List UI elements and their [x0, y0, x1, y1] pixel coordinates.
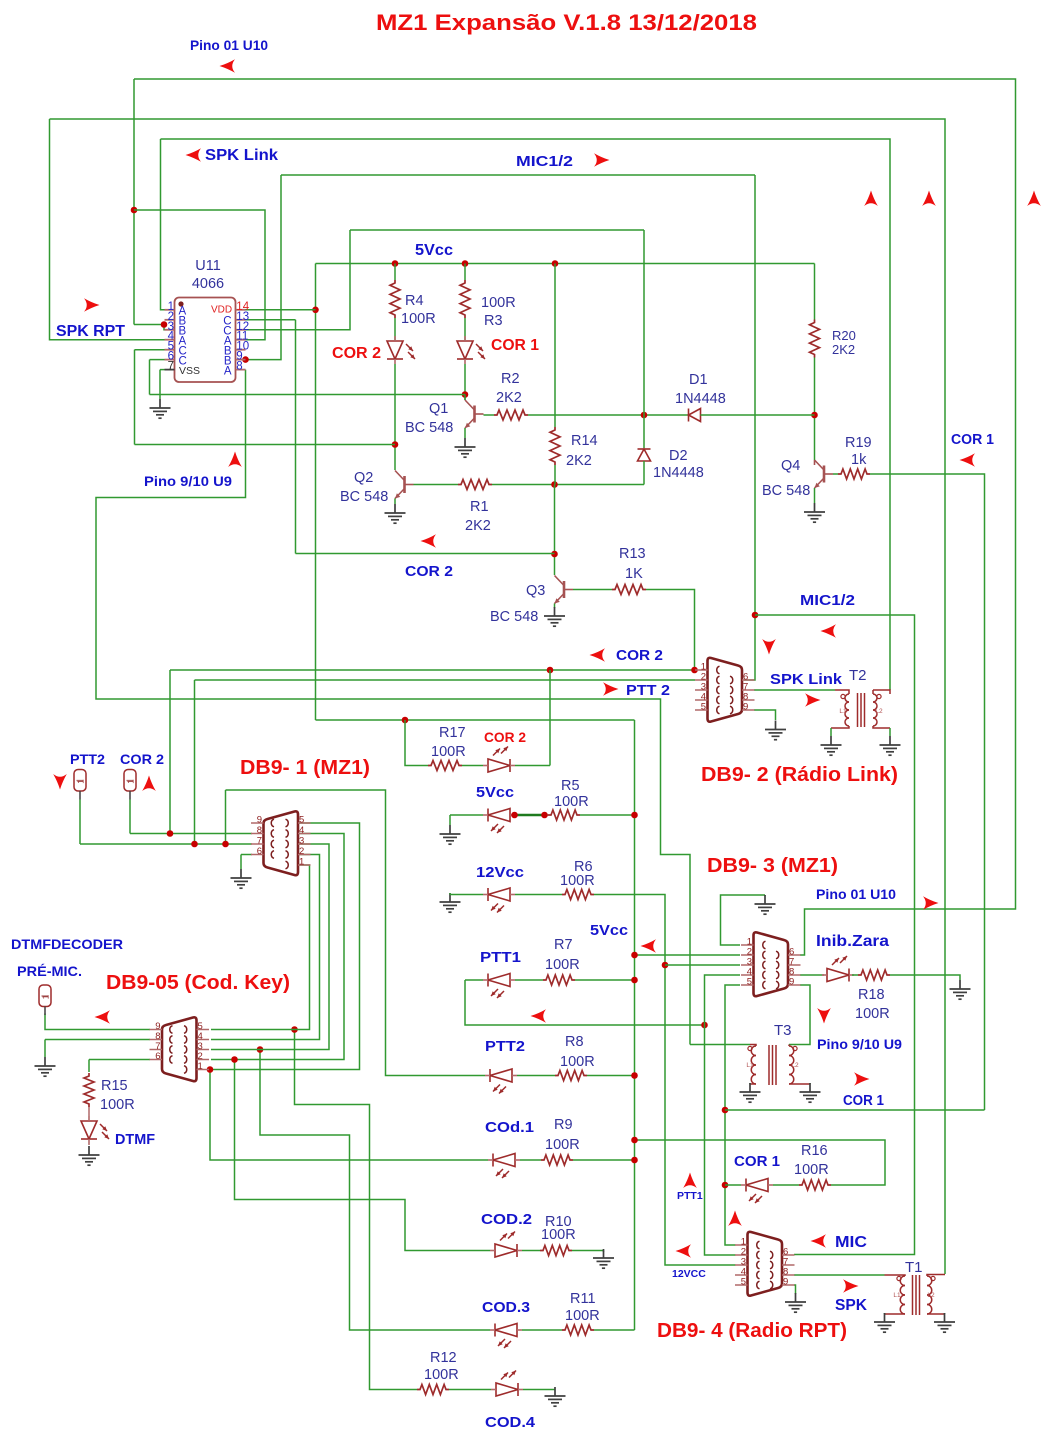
diode D1 [689, 409, 701, 422]
ground Q4 [804, 503, 825, 522]
svg-text:COD.2: COD.2 [481, 1211, 532, 1228]
resistor R9 [541, 1155, 573, 1165]
node U11 pin9 junction [242, 356, 249, 363]
wire Q3 base to R13 [573, 589, 612, 591]
connector DB9-2 (Radio Link) [708, 658, 743, 722]
svg-text:R7: R7 [554, 937, 573, 953]
wire R1 to D2 bottom [492, 484, 644, 486]
wire DB9-3 pin9 to T3 right [789, 985, 810, 1045]
wire R20 to node [814, 358, 816, 461]
svg-text:5: 5 [741, 1277, 746, 1288]
wire PRE-MIC to DB9-05 pin9 [45, 1014, 150, 1030]
svg-text:DTMF: DTMF [115, 1132, 155, 1148]
svg-text:1: 1 [299, 857, 304, 868]
resistor R17 [428, 761, 462, 771]
wire U11 pin7 [160, 369, 165, 371]
node U11 pin3 junction [161, 321, 168, 328]
wire COR2 LED vertical [549, 670, 551, 766]
svg-text:COR 2: COR 2 [332, 345, 381, 362]
svg-text:1: 1 [42, 994, 51, 999]
diode D2 [638, 449, 651, 461]
svg-text:BC 548: BC 548 [762, 483, 810, 499]
ground DTMF led [79, 1146, 100, 1165]
U11 pin 2 lead [165, 319, 175, 321]
led PTT1 [483, 974, 515, 987]
ground T1 L1 [874, 1313, 895, 1332]
flag COR2 mid [421, 534, 437, 548]
svg-text:2K2: 2K2 [496, 390, 522, 406]
U11 pin 11 lead [236, 339, 246, 341]
resistor R14 [550, 427, 560, 465]
transistor Q4 [815, 460, 834, 488]
ground Q1 [455, 438, 476, 457]
wire SPK-RPT net: y119 run down to T1 right [50, 119, 946, 1274]
wire DB9-05 pin2 to DB9-1 pin4 [211, 834, 344, 1060]
wire COR2 row to DB9-2 pin1 [170, 669, 695, 671]
flag DB9-05 [95, 1010, 111, 1024]
svg-text:SPK Link: SPK Link [770, 672, 843, 688]
svg-text:100R: 100R [565, 1308, 600, 1324]
svg-text:Pino 9/10 U9: Pino 9/10 U9 [144, 473, 232, 489]
svg-text:1: 1 [198, 1061, 203, 1072]
node COR2 line / Q1 collector [462, 391, 469, 398]
ground DB9-2 pin9 [765, 721, 786, 740]
resistor R12 [417, 1385, 449, 1395]
svg-text:DB9- 2 (Rádio Link): DB9- 2 (Rádio Link) [701, 764, 898, 786]
wire to DB9-3 pin3 [665, 964, 740, 966]
led COR2 (R4) [387, 336, 403, 364]
U11 pin 13 lead [236, 319, 246, 321]
wire y720 to LED rail [316, 719, 635, 721]
wire R13 to DB9-2 pin1 [646, 590, 695, 671]
ground T1 L2 [934, 1313, 955, 1332]
svg-text:COD.4: COD.4 [485, 1414, 536, 1431]
wire COR2 upper run [135, 444, 396, 446]
ground COD.4 [545, 1387, 566, 1406]
svg-text:9: 9 [257, 815, 262, 826]
led COR2 indicator [483, 759, 515, 772]
node COR2 lower [551, 551, 558, 558]
ground DB9-3 pin1 [755, 895, 776, 914]
wire to U11 pin9 [246, 175, 282, 360]
svg-text:COR 1: COR 1 [491, 337, 539, 354]
svg-text:7: 7 [257, 836, 262, 847]
wire Q2 base to R1 [414, 484, 459, 486]
U11 pin 9 lead [236, 359, 246, 361]
wire U11 pin13 down [295, 320, 297, 554]
wire to U11 pin3 [134, 325, 175, 330]
svg-text:PTT2: PTT2 [485, 1038, 525, 1055]
svg-text:7: 7 [168, 361, 174, 373]
wire COR2 down to connector line [169, 670, 171, 834]
flag up 1 [864, 191, 878, 207]
flag PTT1 row [531, 1009, 547, 1023]
led DTMF [81, 1116, 97, 1144]
flag Pino 9/10 U9 [228, 452, 242, 468]
svg-text:COR 1: COR 1 [734, 1154, 780, 1170]
svg-text:100R: 100R [100, 1097, 135, 1113]
wire U11 pin8 long Pino9/10 run [96, 370, 690, 1045]
svg-text:Pino 01 U10: Pino 01 U10 [816, 886, 896, 902]
svg-text:D2: D2 [669, 448, 688, 464]
wire LED to Q2 collector [394, 364, 396, 470]
svg-text:BC 548: BC 548 [405, 420, 453, 436]
wire led to gnd [449, 815, 451, 825]
svg-text:L1: L1 [839, 708, 847, 715]
wire R18 to ground [890, 975, 960, 980]
ground DB9-05 pin8 [35, 1057, 56, 1076]
wire DB9-2 pin9 to ground [754, 710, 776, 720]
connector COR2 [124, 770, 136, 792]
connector DB9-4 (Radio RPT) [748, 1232, 783, 1296]
transistor Q3 [555, 576, 574, 604]
wire MIC1/2 net y175 run [281, 174, 755, 176]
U11 pin 4 lead [165, 339, 175, 341]
led 5Vcc [483, 809, 515, 822]
wire to U11 pin1 [161, 139, 165, 310]
node COR1 line [722, 1107, 729, 1114]
T1 left top lead [885, 1275, 906, 1276]
flag PTT2 connector [53, 774, 67, 790]
resistor R11 [562, 1325, 594, 1335]
led COd.1 [488, 1154, 520, 1167]
svg-text:6: 6 [257, 846, 262, 857]
wire DB9-05 pin1 to DB9-1 pin5 [211, 823, 360, 1070]
svg-text:DB9- 3 (MZ1): DB9- 3 (MZ1) [707, 855, 838, 877]
svg-text:9: 9 [783, 1277, 788, 1288]
wire to U11 pin13 [246, 319, 296, 321]
svg-text:R20: R20 [832, 328, 856, 343]
resistor R7 [543, 975, 575, 985]
svg-text:R17: R17 [439, 725, 466, 741]
node DB9-05 pin2 branch [231, 1056, 238, 1063]
svg-text:SPK: SPK [835, 1297, 867, 1314]
wire Q2 emitter [394, 499, 396, 505]
svg-text:R13: R13 [619, 546, 646, 562]
svg-text:100R: 100R [431, 744, 466, 760]
node rail pin2 [631, 952, 638, 959]
svg-text:L2: L2 [875, 708, 883, 715]
wire 12Vcc run down to DB9-4 pin3 [594, 895, 736, 1266]
resistor R18 [858, 970, 890, 980]
flag MIC1/2 top [594, 153, 610, 167]
node R17 branch [402, 717, 409, 724]
wire 5Vcc to R4 [394, 264, 396, 281]
resistor R5 [548, 810, 580, 820]
wire DB9-05 pin3 to DB9-1 pin3 [211, 844, 329, 1050]
svg-text:VDD: VDD [211, 305, 232, 316]
T2 left bottom lead [831, 726, 849, 728]
svg-text:100R: 100R [554, 794, 589, 810]
wire DB9-05 pin5 branch to R12 [295, 1030, 418, 1390]
wire to U11 pin4 under SPK RPT [50, 119, 165, 340]
resistor R13 [612, 585, 646, 595]
wire COR2 connector down [129, 800, 131, 834]
connector PTT2 [74, 770, 86, 792]
T3 left top lead [750, 1045, 756, 1047]
ground 12Vcc led [440, 893, 461, 912]
svg-text:R4: R4 [405, 293, 424, 309]
transistor Q2 [395, 471, 414, 499]
U11 pin 7 lead [165, 369, 175, 371]
wire LED to node [464, 364, 466, 400]
led COD.4 [491, 1383, 523, 1396]
svg-text:L1: L1 [746, 1062, 754, 1069]
svg-text:Inib.Zara: Inib.Zara [816, 933, 889, 950]
svg-text:8: 8 [236, 361, 242, 373]
wire rail to DB9-3 pin2 [635, 954, 741, 956]
wire LED return rail x634 [634, 720, 636, 1330]
svg-text:COd.1: COd.1 [485, 1119, 534, 1136]
wire DB9-05 pin5 to DB9-1 pin1 [211, 865, 310, 1030]
ground 5Vcc led [440, 825, 461, 844]
svg-text:COR 1: COR 1 [951, 432, 994, 448]
wire R19 COR1 run down right side [870, 474, 985, 1110]
svg-text:100R: 100R [424, 1367, 459, 1383]
wire U11 pin6 down [149, 360, 151, 395]
svg-text:PTT 2: PTT 2 [626, 683, 670, 699]
svg-text:2: 2 [299, 846, 304, 857]
flag SPK RPT [84, 298, 100, 312]
wire DB9-05 pin2 to COD.2 led [235, 1061, 491, 1251]
svg-text:L2: L2 [791, 1062, 799, 1069]
U11 pin 5 lead [165, 349, 175, 351]
U11 pin 3 lead [165, 329, 175, 331]
wire DB9-05 pin4 to DB9-1 pin2 [211, 855, 320, 1040]
T2 left top lead [835, 690, 849, 694]
svg-text:R18: R18 [858, 987, 885, 1003]
svg-text:100R: 100R [401, 311, 436, 327]
T3 left bottom lead [750, 1083, 756, 1085]
flag up 3 [1027, 191, 1041, 207]
wire y230 run [350, 229, 644, 231]
ground T2 L1 [821, 736, 842, 755]
node COR1 led [722, 1182, 729, 1189]
flag down DB9-2 [762, 639, 776, 655]
svg-text:6: 6 [155, 1051, 160, 1062]
node DB9-05 pin5 branch [291, 1026, 298, 1033]
wire R8 to rail [587, 1075, 635, 1077]
svg-text:100R: 100R [541, 1227, 576, 1243]
wire x=134 vertical to U11 pin3 [133, 79, 135, 325]
node rail R9 [631, 1157, 638, 1164]
svg-text:R11: R11 [570, 1291, 596, 1307]
wire T2 left to gnd [830, 728, 832, 736]
resistor R4 [390, 280, 400, 318]
svg-text:5Vcc: 5Vcc [476, 784, 514, 801]
T2 right bottom lead [873, 726, 890, 728]
svg-text:1k: 1k [851, 452, 867, 468]
flag SPK Link top [186, 148, 202, 162]
wire PTT2 connector down [79, 800, 81, 845]
wire PTT1 led left [465, 979, 483, 981]
svg-text:COD.3: COD.3 [482, 1299, 530, 1316]
transformer T2 [845, 693, 877, 727]
wire R2 to D1 [528, 414, 689, 416]
T3 right bottom lead [789, 1083, 810, 1085]
svg-text:5Vcc: 5Vcc [415, 242, 453, 259]
wire PTT2 row to DB9-2 pin2 [195, 679, 696, 681]
flag 12VCC row [676, 1244, 692, 1258]
wire PTT2 down [194, 680, 196, 844]
node MIC1/2 branch [752, 612, 759, 619]
flag SPK [843, 1279, 859, 1293]
T1 left bottom lead [885, 1313, 906, 1315]
svg-text:MIC: MIC [835, 1234, 867, 1251]
wire 5Vcc to R14 (crosses base line) [554, 264, 556, 428]
node DB9-3 pin3 branch [662, 962, 669, 969]
flag up DB9-4 [728, 1211, 742, 1227]
svg-text:Q4: Q4 [781, 458, 800, 474]
svg-text:COR 1: COR 1 [843, 1093, 884, 1109]
wire Q1 emitter [464, 428, 466, 438]
wire R16 loop to rail [635, 1140, 886, 1185]
transformer T1 [900, 1275, 932, 1315]
U11 pin 6 lead [165, 359, 175, 361]
flag COR2 connector [142, 776, 156, 792]
wire U11 pin6 long run [150, 394, 466, 396]
wire y210 run to U11 pin11 [134, 210, 265, 340]
resistor R3 [460, 280, 470, 318]
wire SPK Link DB9-2 pin7 to T2 [754, 689, 835, 691]
wire to R17 [405, 720, 428, 766]
wire PTT2 row to DB9-1 pin7 [80, 843, 252, 845]
wire U11 pin5 down [134, 350, 136, 445]
wire DB9-05 pin6 to R15 [89, 1059, 150, 1061]
flag COR1 right [960, 453, 976, 467]
wire COR1 row [725, 1109, 985, 1111]
wire DB9-3 pin5 down [725, 985, 740, 1045]
svg-text:Pino 9/10 U9: Pino 9/10 U9 [817, 1036, 902, 1052]
node rail R8 [631, 1072, 638, 1079]
connector DB9-3 (MZ1) [754, 932, 789, 996]
svg-text:MIC1/2: MIC1/2 [516, 154, 573, 170]
node D2 top [641, 412, 648, 419]
ground U11 VSS [150, 399, 171, 418]
ground DB9-4 pin9 [785, 1293, 806, 1312]
wire U11 pin13 run [296, 553, 555, 555]
T2 right top lead [873, 690, 890, 694]
node PTT2 branch [222, 841, 229, 848]
svg-text:DB9- 4 (Radio RPT): DB9- 4 (Radio RPT) [657, 1320, 847, 1342]
svg-text:R19: R19 [845, 435, 872, 451]
wire Q4 emitter to ground [814, 488, 816, 503]
flag down DB9-3 [817, 1008, 831, 1024]
U11 pin 12 lead [236, 329, 246, 331]
resistor R10 [540, 1246, 572, 1256]
wire R9 to rail [573, 1159, 635, 1161]
wire T2 right to gnd [889, 728, 891, 736]
wire COR1 vertical to DB9-4 pin1 [725, 1045, 736, 1246]
node rail R16 [631, 1137, 638, 1144]
flag SPK Link bottom [805, 693, 821, 707]
svg-text:T3: T3 [774, 1022, 792, 1039]
svg-text:R1: R1 [470, 499, 489, 515]
node DB9-2 pin1 [691, 667, 698, 674]
node DB9-05 pin1 branch [207, 1066, 214, 1073]
svg-text:DB9- 1 (MZ1): DB9- 1 (MZ1) [240, 757, 370, 779]
svg-text:2K2: 2K2 [832, 342, 855, 357]
svg-text:R9: R9 [554, 1117, 573, 1133]
svg-text:9: 9 [743, 702, 748, 713]
svg-text:Q1: Q1 [429, 401, 448, 417]
resistor R2 [494, 410, 528, 420]
wire 5Vcc distribution vertical x315 [315, 264, 317, 721]
svg-text:MZ1 Expansão V.1.8 13/12/2018: MZ1 Expansão V.1.8 13/12/2018 [376, 10, 757, 35]
svg-text:BC 548: BC 548 [490, 609, 538, 625]
flag Pino01U10 top [220, 59, 236, 73]
node pin4 vertical [701, 1022, 708, 1029]
svg-text:5: 5 [299, 815, 304, 826]
wire to U11 pin6 [150, 359, 165, 361]
flag COR1 T3 [854, 1072, 870, 1086]
U11 pin 14 lead [236, 309, 246, 311]
wire DB9-3 pin8 to Inib led [800, 974, 824, 976]
resistor R6 [562, 890, 594, 900]
wire PTT2 to led [226, 790, 486, 1076]
node junction x134/y210 [131, 207, 138, 214]
svg-text:12Vcc: 12Vcc [476, 864, 524, 881]
svg-text:A: A [224, 365, 232, 377]
wire R11 to rail bottom [594, 1329, 635, 1331]
flag 5Vcc mid [641, 939, 657, 953]
resistor R19 [838, 469, 870, 479]
svg-text:3: 3 [299, 836, 304, 847]
U11 pin 10 lead [236, 349, 246, 351]
wire D1 to R20 node [701, 414, 815, 416]
U11 pin 8 lead [236, 369, 246, 371]
node PTT2 vertical [191, 841, 198, 848]
ground DB9-1 pin6 [231, 869, 252, 888]
svg-text:1N4448: 1N4448 [675, 391, 726, 407]
wire D2 to R1 line [643, 461, 645, 485]
flag MIC [811, 1234, 827, 1248]
wire 5Vcc rail [316, 263, 815, 265]
svg-text:4: 4 [299, 825, 304, 836]
ground T3 L2 [800, 1083, 821, 1102]
wire 5Vcc to R20 [814, 264, 816, 320]
svg-text:R5: R5 [561, 778, 580, 794]
svg-text:PTT1: PTT1 [480, 949, 521, 966]
connector DB9-05 (Cod Key) [162, 1017, 197, 1081]
svg-text:MIC1/2: MIC1/2 [800, 593, 855, 609]
svg-text:Q3: Q3 [526, 583, 545, 599]
flag Pino01U10 right [923, 896, 939, 910]
wire DB9-3 pin4 to DB9-4 pin2 [705, 975, 741, 1255]
U11 pin 1 lead [165, 309, 175, 311]
svg-text:L2: L2 [927, 1292, 935, 1299]
wire PTT2 branch down [225, 790, 227, 844]
svg-text:5: 5 [747, 977, 752, 988]
led COD.3 [490, 1324, 522, 1337]
led COR1 bottom [741, 1179, 773, 1192]
wire DB9-05 pin8 to ground [45, 1039, 150, 1041]
wire R5 to rail [580, 814, 635, 816]
connector PRE-MIC [39, 985, 51, 1007]
svg-text:COR 2: COR 2 [484, 729, 526, 745]
wire DB9-4 pin9 to ground [794, 1285, 796, 1294]
transistor Q1 [465, 400, 484, 428]
svg-text:T2: T2 [849, 667, 867, 684]
led COR1 (R3) [457, 336, 473, 364]
wire MIC1/2 to DB9-4 pin6 [755, 615, 915, 1255]
wire R7 to rail [575, 979, 635, 981]
svg-text:DTMFDECODER: DTMFDECODER [11, 936, 123, 952]
svg-text:DB9-05 (Cod. Key): DB9-05 (Cod. Key) [106, 972, 290, 994]
led 12Vcc [483, 888, 515, 901]
wire R10 to ground [572, 1250, 604, 1252]
led PTT2 [485, 1069, 517, 1082]
